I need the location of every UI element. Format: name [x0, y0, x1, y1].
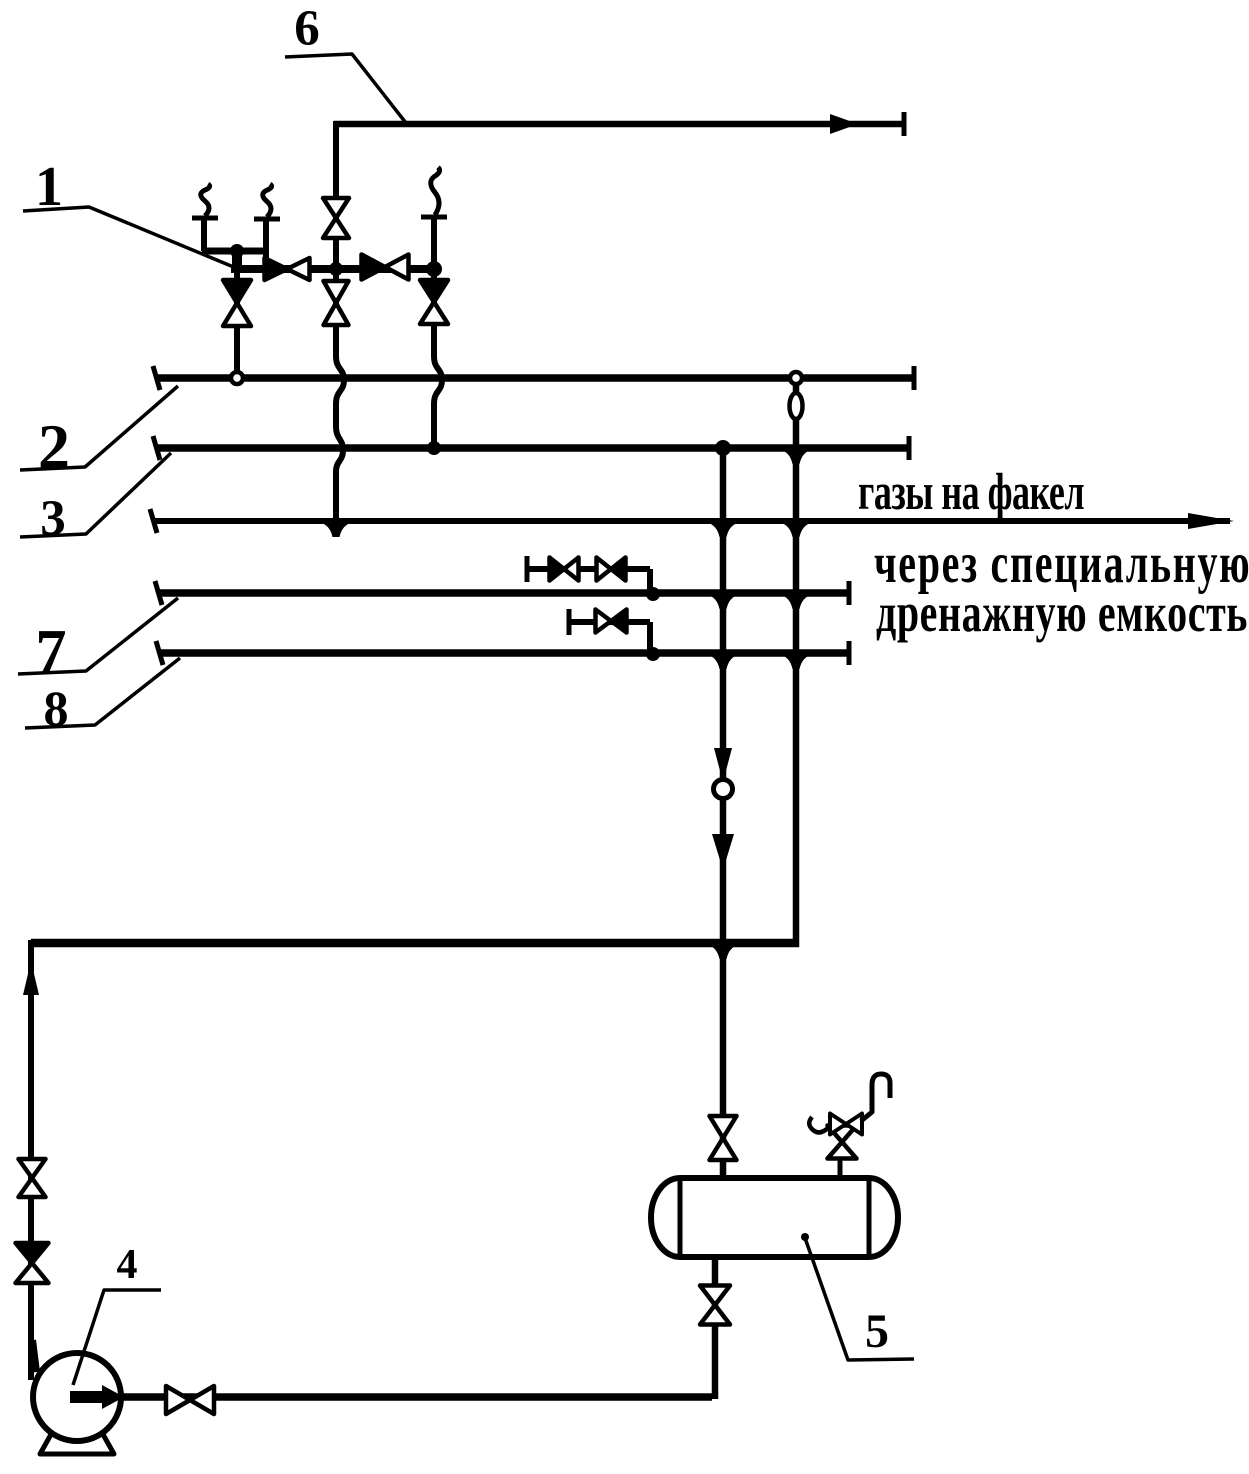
svg-text:2: 2 [38, 411, 70, 482]
svg-text:6: 6 [294, 1, 320, 57]
svg-text:8: 8 [44, 680, 69, 736]
svg-text:дренажную емкость: дренажную емкость [876, 583, 1248, 644]
svg-text:7: 7 [36, 618, 67, 686]
svg-text:4: 4 [117, 1242, 138, 1288]
svg-text:3: 3 [40, 491, 66, 547]
svg-text:газы на факел: газы на факел [858, 462, 1084, 520]
svg-text:1: 1 [35, 156, 63, 218]
svg-text:5: 5 [865, 1305, 889, 1358]
